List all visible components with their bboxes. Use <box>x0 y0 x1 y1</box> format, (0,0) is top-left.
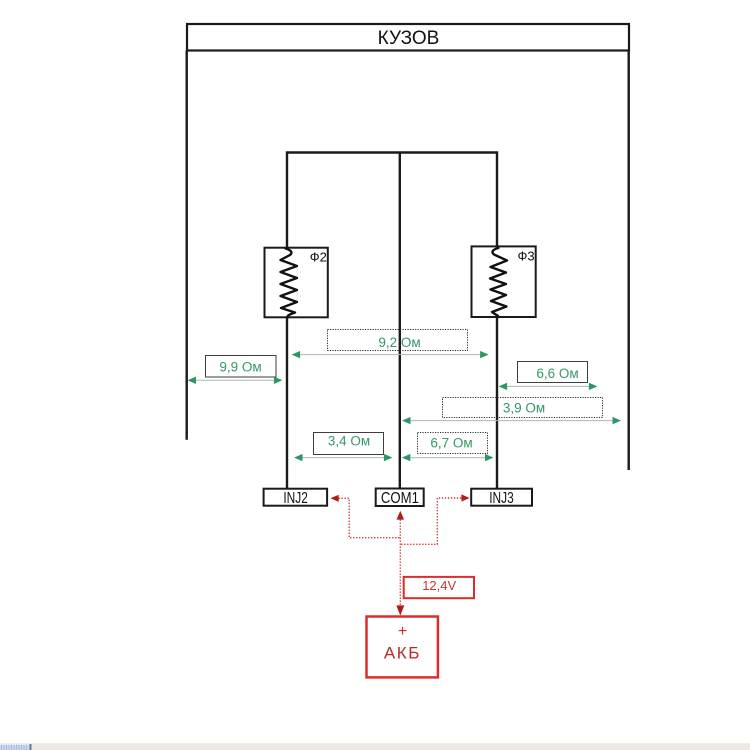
svg-text:+: + <box>398 623 407 640</box>
svg-text:Ф3: Ф3 <box>517 248 534 263</box>
svg-text:Ф2: Ф2 <box>310 250 327 265</box>
svg-text:3,4 Ом: 3,4 Ом <box>328 433 370 448</box>
svg-text:АКБ: АКБ <box>384 643 420 662</box>
svg-text:6,6 Ом: 6,6 Ом <box>536 366 578 381</box>
svg-text:9,9 Ом: 9,9 Ом <box>219 360 261 375</box>
svg-text:12,4V: 12,4V <box>422 578 456 593</box>
svg-text:INJ2: INJ2 <box>283 490 308 507</box>
svg-text:КУЗОВ: КУЗОВ <box>378 28 440 49</box>
svg-text:COM1: COM1 <box>381 490 419 507</box>
svg-text:9,2 Ом: 9,2 Ом <box>378 335 420 350</box>
svg-text:INJ3: INJ3 <box>489 490 514 507</box>
svg-text:6,7 Ом: 6,7 Ом <box>430 436 472 451</box>
svg-text:3,9 Ом: 3,9 Ом <box>503 400 545 415</box>
